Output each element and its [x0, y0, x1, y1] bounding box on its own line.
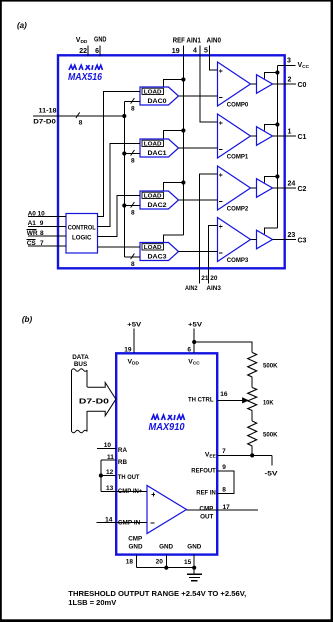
svg-text:LOAD: LOAD	[144, 194, 162, 200]
junction REF tap 0	[181, 77, 185, 81]
svg-text:1: 1	[288, 129, 292, 136]
svg-text:4: 4	[193, 48, 197, 55]
svg-text:9: 9	[40, 220, 44, 227]
svg-text:8: 8	[131, 158, 135, 165]
pin 7 CS	[28, 245, 66, 247]
MAXIM logo (a)	[69, 65, 73, 70]
svg-text:OUT: OUT	[200, 513, 213, 520]
pin 3 Vcc	[277, 64, 295, 66]
wire VCC to resistor chain	[194, 342, 252, 353]
wire control to DAC2 load	[98, 196, 141, 237]
svg-text:6: 6	[95, 48, 99, 55]
pin 22 VDD	[87, 46, 89, 57]
svg-text:22: 22	[79, 48, 87, 55]
wire COMP1 to buffer	[251, 135, 257, 137]
svg-text:LOAD: LOAD	[144, 142, 162, 148]
slash 8 DAC3	[131, 254, 135, 260]
svg-text:11-18: 11-18	[39, 108, 57, 115]
pin 6 GND	[99, 46, 101, 57]
svg-text:DATA: DATA	[72, 354, 89, 361]
wire CMP IN+ to comparator	[116, 491, 147, 493]
pin 10 A0	[28, 215, 66, 217]
svg-text:RB: RB	[118, 459, 128, 466]
wire to -5V	[271, 455, 273, 465]
wire REF tap DAC3	[164, 235, 184, 243]
wire R1-R2	[251, 377, 253, 388]
wire DAC1 data in	[124, 153, 140, 155]
svg-text:LOGIC: LOGIC	[72, 234, 92, 241]
svg-text:7: 7	[222, 448, 226, 455]
buffer stage 2	[257, 179, 273, 198]
DAC1 block	[140, 139, 179, 157]
svg-text:20: 20	[156, 559, 164, 566]
pin 10 RA	[97, 447, 116, 449]
pin output C2	[273, 187, 297, 189]
wire REF tap DAC1	[164, 131, 184, 140]
svg-text:DAC3: DAC3	[148, 254, 168, 261]
svg-text:18: 18	[126, 559, 134, 566]
svg-text:MAX910: MAX910	[149, 422, 185, 433]
svg-text:REF IN: REF IN	[196, 490, 216, 497]
svg-text:8: 8	[79, 119, 83, 126]
junction Vcc rail 2	[275, 174, 279, 178]
svg-text:12: 12	[106, 469, 114, 476]
IC U2 MAX910 body	[116, 353, 217, 554]
svg-text:COMP0: COMP0	[227, 102, 249, 109]
svg-text:8: 8	[131, 106, 135, 113]
svg-text:10: 10	[38, 210, 46, 217]
svg-text:24: 24	[288, 181, 296, 188]
junction REF tap 1	[181, 128, 185, 132]
svg-text:23: 23	[288, 232, 296, 239]
svg-text:CS: CS	[27, 240, 37, 247]
wire REF tap DAC0	[164, 80, 184, 88]
MAXIM logo (b)	[151, 415, 155, 420]
svg-text:GND: GND	[94, 37, 107, 44]
svg-text:6: 6	[187, 347, 191, 354]
comparator COMP1	[218, 114, 251, 158]
wire buffer 0 pull-up	[265, 73, 278, 79]
DAC0 block	[140, 87, 179, 105]
resistor R1 500K	[248, 353, 257, 378]
svg-text:AIN1: AIN1	[186, 38, 201, 45]
wire control to DAC3 load	[98, 246, 141, 248]
junction REF tap 2	[181, 180, 185, 184]
pin 21 AIN2 wire to COMP2	[200, 174, 218, 284]
pin 13 CMP IN+	[101, 491, 116, 493]
svg-text:C3: C3	[298, 237, 307, 244]
svg-text:16: 16	[220, 391, 228, 398]
svg-text:11: 11	[107, 454, 114, 461]
junction bus main	[122, 114, 126, 118]
junction TH OUT	[99, 473, 103, 477]
wire DAC1 out to COMP1 minus	[179, 147, 218, 149]
slash 8 DAC1	[131, 150, 135, 156]
junction gnd 20	[164, 566, 168, 570]
buffer stage 3	[257, 230, 273, 249]
wire DAC2 data in	[124, 205, 140, 207]
wire REF tap DAC2	[164, 183, 184, 192]
svg-text:C1: C1	[298, 134, 307, 141]
svg-text:BUS: BUS	[74, 361, 87, 368]
svg-text:2: 2	[288, 77, 292, 84]
svg-text:GND: GND	[187, 543, 201, 550]
svg-text:21: 21	[201, 275, 209, 282]
pin output C0	[273, 83, 297, 85]
svg-text:+5V: +5V	[188, 322, 203, 329]
svg-text:15: 15	[184, 559, 192, 566]
wire DAC0 out to COMP0 minus	[179, 95, 218, 97]
ground symbol	[193, 568, 195, 575]
svg-text:13: 13	[106, 485, 114, 492]
svg-text:MAX516: MAX516	[68, 72, 102, 83]
pin output C1	[273, 135, 297, 137]
wire control to DAC1 load	[98, 144, 141, 227]
wire RB/THOUT/CMPIN+ tie	[100, 460, 102, 492]
pin 8 WR	[28, 235, 66, 237]
svg-text:19: 19	[124, 347, 132, 354]
resistor R2 10K	[248, 388, 257, 411]
pin 20 AIN3 wire to COMP3	[209, 226, 218, 284]
svg-text:AIN2: AIN2	[185, 285, 198, 292]
pin 14 CMP IN-	[97, 521, 117, 523]
comparator COMP2	[218, 166, 251, 210]
DAC2 LOAD box	[142, 192, 164, 198]
svg-text:DAC0: DAC0	[148, 98, 168, 105]
junction VCC tap	[192, 340, 196, 344]
pin 20 GND stub	[165, 555, 167, 568]
svg-text:5: 5	[204, 48, 208, 55]
svg-text:REF: REF	[173, 38, 186, 45]
svg-text:CMP IN-: CMP IN-	[118, 520, 142, 527]
svg-text:500K: 500K	[263, 364, 278, 370]
wire buffer 2 pull-up	[265, 177, 278, 183]
svg-text:AIN3: AIN3	[206, 285, 221, 292]
svg-text:COMP3: COMP3	[227, 257, 249, 264]
svg-text:REFOUT: REFOUT	[191, 467, 216, 474]
DAC2 block	[140, 191, 179, 209]
svg-text:COMP1: COMP1	[227, 154, 249, 161]
wire COMP2 to buffer	[251, 187, 257, 189]
pin 9 REFOUT to pin 8 REF IN jumper	[217, 471, 234, 493]
svg-text:D7-D0: D7-D0	[33, 118, 56, 125]
DAC3 block	[140, 243, 179, 261]
bus slash 8	[76, 112, 80, 118]
svg-text:8: 8	[131, 261, 135, 268]
junction Vcc rail 1	[275, 122, 279, 126]
comparator COMP3	[218, 218, 251, 262]
pin 4 AIN1	[199, 46, 201, 57]
svg-text:GND: GND	[129, 543, 143, 550]
wire COMP3 to buffer	[251, 239, 257, 241]
slash 8 DAC0	[131, 98, 135, 104]
pin 18 GND stub	[136, 555, 138, 568]
resistor R3 500K	[248, 421, 257, 446]
svg-text:A0: A0	[28, 210, 37, 217]
pin 19 REF	[182, 46, 184, 57]
junction Vcc rail 0	[275, 70, 279, 74]
bus arrow D7-D0	[87, 383, 116, 416]
wire data bus D7-D0	[33, 115, 124, 117]
wire Vcc rail	[276, 65, 278, 228]
svg-text:D7-D0: D7-D0	[79, 399, 109, 406]
svg-text:A1: A1	[28, 220, 37, 227]
svg-text:1LSB = 20mV: 1LSB = 20mV	[68, 600, 116, 607]
svg-text:500K: 500K	[263, 433, 278, 439]
wire data bus vertical	[123, 102, 125, 258]
comparator U2 internal	[147, 486, 187, 534]
svg-text:CMP: CMP	[199, 505, 213, 512]
pin 11 RB	[101, 459, 116, 461]
wire DAC3 data in	[124, 256, 140, 258]
DAC3 LOAD box	[142, 244, 164, 250]
wire CMP IN- to comparator	[116, 521, 147, 523]
svg-text:TH CTRL: TH CTRL	[188, 397, 214, 404]
pin 9 A1	[28, 225, 66, 227]
wire R2-R3	[251, 411, 253, 422]
pin 7 VEE node wire	[217, 454, 272, 456]
svg-text:C0: C0	[298, 82, 307, 89]
DAC0 LOAD box	[142, 88, 164, 94]
svg-text:TH OUT: TH OUT	[118, 474, 140, 481]
wire R3 to VEE node	[251, 446, 253, 455]
pin 15 GND stub	[193, 555, 195, 568]
svg-text:GND: GND	[159, 543, 173, 550]
svg-text:14: 14	[105, 516, 113, 523]
junction bus DAC1	[122, 151, 126, 155]
svg-text:3: 3	[287, 58, 291, 65]
svg-text:10K: 10K	[263, 401, 274, 407]
pin 19 VDD wire	[133, 329, 135, 354]
svg-text:17: 17	[223, 504, 231, 511]
buffer stage 1	[257, 127, 273, 146]
pin 16 TH CTRL wiper arrow	[217, 399, 243, 401]
svg-text:10: 10	[104, 442, 112, 449]
svg-text:(b): (b)	[22, 315, 33, 324]
svg-text:(a): (a)	[17, 21, 27, 30]
IC U1 MAX516 body	[58, 55, 285, 268]
svg-text:8: 8	[222, 486, 226, 493]
pin 6 VCC wire	[193, 329, 195, 354]
junction VEE node	[250, 453, 254, 457]
wire ground bus	[137, 567, 195, 569]
svg-text:CONTROL: CONTROL	[68, 224, 96, 231]
junction bus DAC2	[122, 203, 126, 207]
svg-text:THRESHOLD OUTPUT RANGE +2.54V: THRESHOLD OUTPUT RANGE +2.54V TO +2.56V,	[68, 591, 246, 598]
wire DAC0 data in	[124, 101, 140, 103]
wire DAC2 out to COMP2 minus	[179, 199, 218, 201]
svg-text:DAC1: DAC1	[148, 150, 168, 157]
wire AIN0 to COMP0	[210, 57, 218, 71]
svg-text:+5V: +5V	[127, 322, 142, 329]
pin 17 CMP OUT wire	[187, 509, 259, 511]
wire buffer 1 pull-up	[265, 125, 278, 131]
wire COMP0 to buffer	[251, 83, 257, 85]
pin output C3	[273, 239, 297, 241]
svg-text:8: 8	[40, 230, 44, 237]
DAC1 LOAD box	[142, 140, 164, 146]
svg-text:8: 8	[131, 210, 135, 217]
svg-text:WR: WR	[27, 230, 38, 237]
slash 8 DAC2	[131, 202, 135, 208]
svg-text:19: 19	[172, 48, 180, 55]
wire buffer 3 pull-up	[265, 228, 278, 234]
svg-text:CMP: CMP	[128, 535, 142, 542]
svg-text:AIN0: AIN0	[207, 38, 222, 45]
svg-text:-5V: -5V	[265, 471, 279, 478]
svg-text:20: 20	[210, 275, 218, 282]
svg-text:DAC2: DAC2	[148, 202, 168, 209]
wire control to DAC0 load	[98, 92, 141, 217]
comparator COMP0	[218, 62, 251, 106]
svg-text:C2: C2	[298, 186, 307, 193]
svg-text:9: 9	[222, 464, 226, 471]
svg-text:RA: RA	[118, 447, 128, 454]
control logic block	[66, 214, 98, 254]
wire AIN1 to COMP1	[200, 57, 218, 123]
pin 12 TH OUT	[101, 475, 116, 477]
svg-text:COMP2: COMP2	[227, 206, 249, 213]
buffer stage 0	[257, 75, 273, 94]
junction gnd 15	[192, 566, 196, 570]
svg-text:LOAD: LOAD	[144, 245, 162, 251]
svg-text:LOAD: LOAD	[144, 90, 162, 96]
wire REF rail	[182, 57, 184, 236]
wire DAC3 out to COMP3 minus	[179, 251, 218, 253]
pin 5 AIN0	[209, 46, 211, 57]
svg-text:7: 7	[40, 240, 44, 247]
